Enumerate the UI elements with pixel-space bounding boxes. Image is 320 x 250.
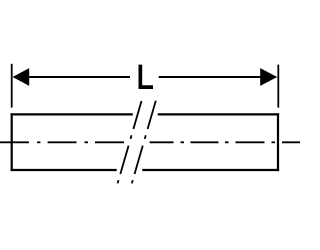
break line left (dash-dot diagonal): [118, 101, 142, 183]
rod body outline: [11, 113, 280, 171]
rod left end edge: [11, 113, 13, 171]
break line right (dash-dot diagonal): [132, 101, 156, 184]
dimension extension line right: [277, 65, 279, 108]
centerline (dash-dot axis): [0, 141, 300, 143]
dimension label L: [139, 65, 154, 89]
rod right end edge: [277, 113, 279, 171]
rod top edge left segment: [11, 113, 133, 115]
dimension arrowhead left: [13, 68, 30, 86]
dimension line left segment: [28, 76, 130, 78]
dimension line right segment: [159, 76, 261, 78]
dimension arrowhead right: [260, 68, 277, 86]
rod top edge right segment: [158, 113, 279, 115]
dimension extension line left: [11, 64, 13, 108]
rod bottom edge right segment: [142, 169, 279, 171]
rod bottom edge left segment: [11, 169, 117, 171]
